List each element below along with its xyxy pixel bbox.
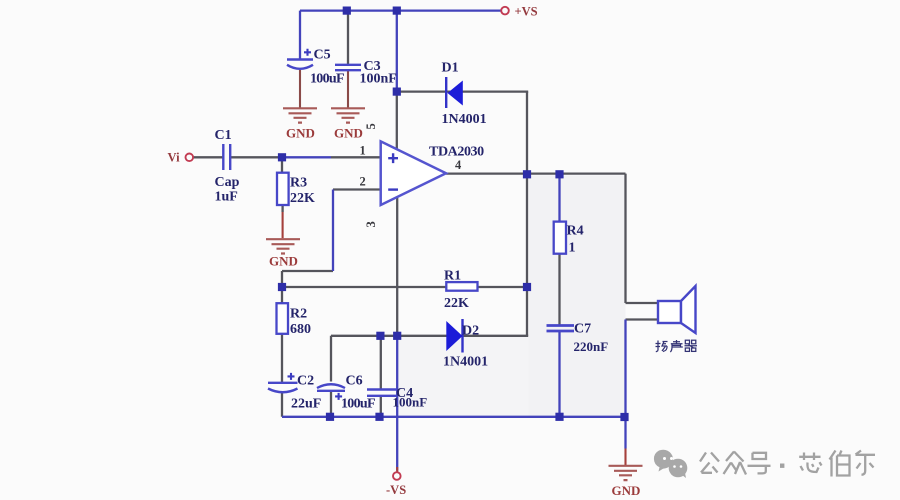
svg-text:4: 4 <box>455 158 462 172</box>
svg-text:GND: GND <box>286 126 315 141</box>
svg-text:1: 1 <box>360 144 366 158</box>
svg-text:2: 2 <box>360 175 366 189</box>
svg-text:+VS: +VS <box>515 5 538 19</box>
svg-text:22K: 22K <box>444 296 469 311</box>
svg-text:220nF: 220nF <box>574 339 609 354</box>
svg-text:1N4001: 1N4001 <box>442 112 487 127</box>
svg-text:GND: GND <box>269 254 298 269</box>
svg-text:680: 680 <box>290 322 311 337</box>
svg-text:R1: R1 <box>444 269 461 284</box>
svg-text:100uF: 100uF <box>341 397 375 412</box>
svg-text:C2: C2 <box>297 374 314 389</box>
svg-text:Vi: Vi <box>168 151 181 165</box>
svg-text:1N4001: 1N4001 <box>443 355 488 370</box>
svg-text:-VS: -VS <box>386 483 406 497</box>
svg-text:22K: 22K <box>290 191 315 206</box>
svg-text:D2: D2 <box>462 324 479 339</box>
svg-text:R2: R2 <box>290 307 307 322</box>
svg-text:1: 1 <box>569 241 576 256</box>
svg-text:Cap: Cap <box>215 175 240 190</box>
svg-text:C7: C7 <box>574 322 591 337</box>
svg-text:C6: C6 <box>346 374 363 389</box>
svg-text:22uF: 22uF <box>291 397 321 412</box>
svg-text:GND: GND <box>334 126 363 141</box>
svg-text:D1: D1 <box>442 61 459 76</box>
svg-text:100nF: 100nF <box>393 395 428 410</box>
svg-text:100nF: 100nF <box>360 72 397 87</box>
svg-text:GND: GND <box>612 483 641 498</box>
svg-text:R4: R4 <box>567 224 584 239</box>
svg-text:3: 3 <box>364 221 378 227</box>
svg-text:5: 5 <box>364 123 378 129</box>
svg-text:1uF: 1uF <box>215 190 238 205</box>
svg-text:R3: R3 <box>290 176 307 191</box>
svg-text:100uF: 100uF <box>310 72 344 87</box>
svg-text:C5: C5 <box>314 48 331 63</box>
svg-text:C1: C1 <box>215 128 232 143</box>
